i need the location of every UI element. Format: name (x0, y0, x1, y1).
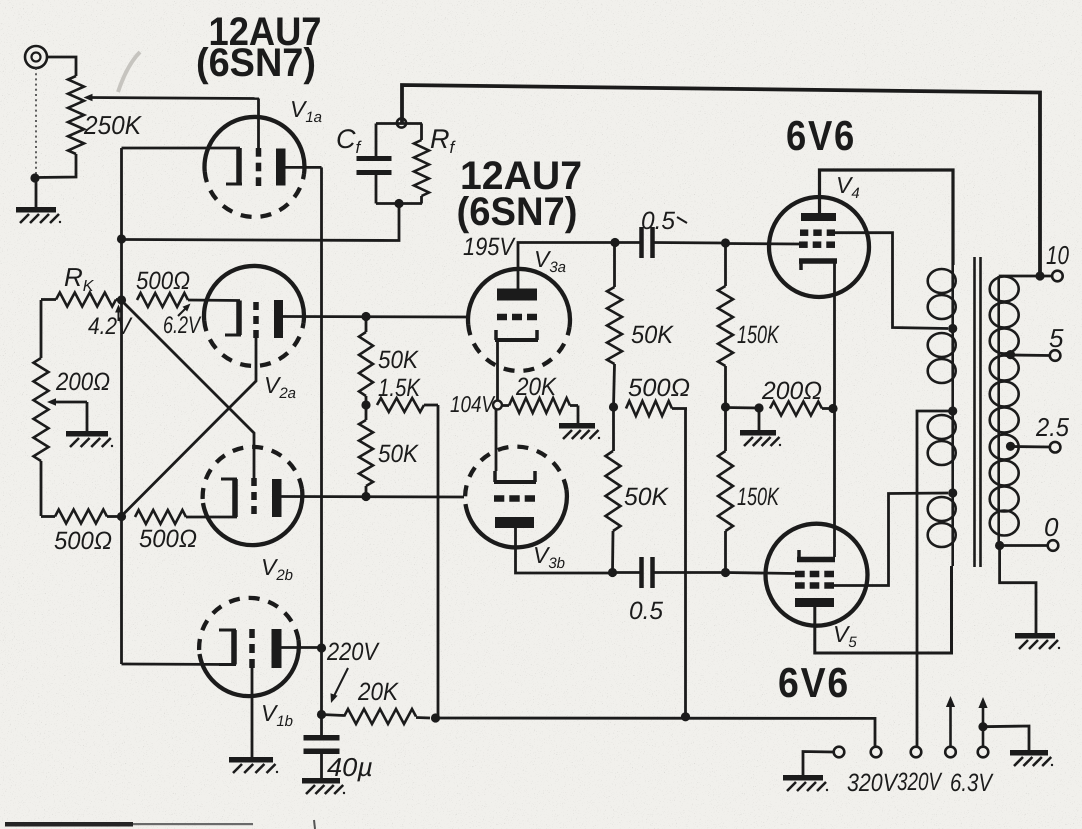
V3a cathode (495, 330, 538, 340)
ground below 40u (302, 778, 345, 794)
potentiometer 250K body (68, 76, 84, 154)
V3b cathode (494, 471, 536, 482)
node secondary tap 5 (1006, 350, 1015, 359)
svg-text:4.2V: 4.2V (88, 313, 133, 340)
wire 250K bottom to ground node (35, 154, 76, 178)
scan artifact tick (314, 820, 315, 829)
wire secondary top to terminal 10 (999, 275, 1052, 278)
svg-text:200Ω: 200Ω (761, 377, 822, 405)
ground below V1b (229, 757, 278, 773)
node primary tap2 B+ (948, 406, 957, 415)
V5 control grid (795, 571, 834, 578)
wire spur to ground (758, 408, 761, 430)
node jack/250K junction (30, 173, 39, 182)
svg-text:1.5K: 1.5K (378, 374, 421, 402)
resistor 150K a (718, 243, 733, 407)
terminal 6.3V a (945, 747, 956, 758)
wire V4 plate to transformer top (820, 170, 954, 265)
V2b cathode (221, 479, 237, 517)
wire bottom rail (436, 718, 876, 747)
V2b plate (272, 479, 282, 517)
wire V5 plate to transformer bottom (815, 566, 952, 653)
node primary tap3 (948, 488, 957, 497)
wire V2a plate out (283, 315, 468, 318)
svg-text:50K: 50K (378, 440, 419, 468)
svg-text:250K: 250K (83, 110, 142, 140)
wire 500ohm mid drop (684, 409, 687, 717)
svg-text:500Ω: 500Ω (139, 525, 197, 553)
node secondary tap 2.5 (1006, 442, 1015, 451)
node cathode rail / feedback junction (117, 234, 126, 243)
node 500ohm drop junction (681, 712, 690, 721)
terminal 5 (1050, 350, 1061, 361)
label 6.2V arrow (178, 304, 191, 317)
node feedback bottom (394, 199, 403, 208)
wire to V5 grid (726, 573, 796, 574)
ground below 150K junction (740, 430, 781, 446)
wire node to ground (35, 178, 38, 207)
svg-text:200Ω: 200Ω (55, 368, 110, 396)
V3a grid (497, 314, 537, 321)
node secondary bottom (995, 541, 1004, 550)
scan artifact smudge top-left (118, 52, 140, 92)
tube V1b envelope (199, 598, 299, 696)
svg-text:50K: 50K (624, 483, 669, 511)
tube V3a envelope (468, 269, 570, 371)
scan artifact bar bottom-left (5, 822, 133, 827)
label 0.5 upper tick (677, 217, 687, 223)
wire V1b grid to ground (251, 668, 254, 757)
tube V2b envelope (203, 447, 303, 545)
resistor 20K mid (502, 398, 578, 413)
wire V3b plate to lower rail (516, 528, 613, 573)
wire left rail (120, 148, 123, 664)
resistor 50K c (607, 243, 622, 408)
V1b plate (272, 629, 282, 668)
terminal 320V b (911, 747, 922, 758)
resistor 20K right (322, 709, 431, 724)
V5 plate (795, 598, 834, 607)
wire terminal1 to ground (803, 752, 834, 776)
wire cross-couple B (122, 338, 257, 516)
svg-text:(6SN7): (6SN7) (457, 190, 578, 234)
wire V5 screen to tap3 (834, 493, 948, 586)
V1a cathode (226, 148, 242, 184)
node V2b plate junction (361, 492, 370, 501)
node 6.3V junction (978, 722, 987, 731)
potentiometer 200ohm body (34, 300, 49, 516)
svg-text:500Ω: 500Ω (628, 374, 690, 402)
input jack J1 (25, 46, 47, 68)
wire Cf/Rf top bar (376, 122, 422, 125)
wire secondary bottom to ground (1000, 546, 1036, 633)
wire jack to 250K top (47, 57, 76, 76)
node 150K mid junction (721, 402, 730, 411)
V4 control grid (799, 241, 835, 248)
node 20K right junction (431, 713, 440, 722)
wire tap 5 (1011, 354, 1051, 357)
250K wiper arrow (84, 94, 260, 102)
node 104V (493, 401, 502, 410)
capacitor 0.5 lower (642, 557, 653, 588)
svg-text:6V6: 6V6 (778, 659, 850, 706)
V2a grid (253, 302, 259, 338)
wire top feedback rail (402, 85, 1040, 276)
wire to V4 grid (726, 242, 800, 245)
svg-text:500Ω: 500Ω (136, 267, 190, 295)
wire Cf top stem (375, 124, 378, 157)
resistor 50K d (606, 407, 621, 573)
wire V1a plate out (286, 166, 322, 169)
terminal 10 (1052, 271, 1063, 282)
wire 150K junction to ground node (726, 406, 760, 409)
wire 500ohm lr to V2b cathode (186, 516, 237, 519)
transformer core (975, 257, 981, 567)
svg-text:2.5: 2.5 (1035, 412, 1069, 442)
label 220V arrow (331, 668, 349, 703)
wire V1b plate out (282, 646, 322, 649)
resistor 500ohm lower-right (135, 510, 186, 524)
wire rail to cap 0.5 lower (613, 571, 642, 574)
wire plate rail (320, 167, 323, 714)
wire 500ohm ll out (107, 515, 122, 518)
resistor 150K b (718, 407, 733, 573)
wire 500ohm to V2a cathode (188, 299, 240, 302)
ground at terminal 1 (783, 775, 828, 791)
V2b grid (251, 478, 257, 514)
ground below 20K mid (559, 423, 600, 439)
V1b grid (249, 629, 255, 668)
wire V3a plate to 195V rail (518, 243, 615, 289)
node V5 grid junction (721, 568, 730, 577)
wire 1.5K drop (437, 405, 440, 718)
svg-text:6.3V: 6.3V (950, 769, 994, 797)
wire feedback to V1a cathode rail (122, 204, 400, 241)
ground below 200ohm wiper (66, 431, 113, 447)
label 4.2V arrow (115, 305, 122, 322)
terminal 6.3V b (978, 747, 989, 758)
svg-text:0.5: 0.5 (629, 597, 663, 625)
svg-text:320V: 320V (897, 768, 943, 796)
wire 20K mid to ground (577, 406, 580, 424)
tube V2a envelope (204, 266, 304, 366)
V5 cathode (797, 550, 835, 560)
wire cap to V4 grid node (653, 241, 726, 244)
terminal ground-left (834, 747, 845, 758)
capacitor 0.5 upper (642, 227, 653, 258)
wire V1a cathode feed (122, 147, 241, 150)
node 20K-left junction (317, 710, 326, 719)
wire Cf/Rf bottom bar (376, 202, 422, 205)
wire V3a cathode to 104V node (496, 340, 499, 401)
node secondary top (1035, 271, 1044, 280)
transformer primary winding (928, 265, 956, 566)
node Rk junction 4.2V (117, 295, 126, 304)
capacitor Cf (357, 156, 392, 175)
terminal 2.5 (1050, 442, 1061, 453)
resistor 50K a (359, 317, 373, 406)
node V4 cathode junction (828, 404, 837, 413)
V4 screen grid (800, 229, 835, 236)
V1a grid (256, 148, 262, 186)
node lower rail left junction (608, 568, 617, 577)
wire jack stem (dotted) (35, 68, 37, 177)
svg-text:6.2V: 6.2V (163, 312, 201, 339)
node V2a plate junction (361, 312, 370, 321)
tube V1a envelope (205, 117, 305, 217)
node 50K c top junction (610, 238, 619, 247)
wire 200ohm to 500ohm (41, 515, 55, 518)
resistor 500ohm upper (137, 293, 188, 307)
svg-text:20K: 20K (357, 678, 399, 706)
tube V3b envelope (465, 447, 567, 548)
wire V4 cathode rail (833, 261, 836, 557)
svg-text:104V: 104V (450, 391, 496, 417)
resistor 500ohm mid (626, 401, 687, 416)
wire rail to cap 0.5 upper (615, 241, 641, 244)
V3a plate (497, 289, 537, 301)
svg-text:320V: 320V (847, 769, 899, 797)
wire 6.3V to ground (983, 726, 1029, 750)
node ground spur junction (754, 403, 763, 412)
V5 screen grid (795, 582, 834, 589)
wire V3b cathode to 104V node (495, 410, 498, 472)
terminal 0 (1048, 540, 1059, 551)
svg-text:6V6: 6V6 (786, 112, 856, 159)
wire heater arrow b (978, 697, 987, 747)
wire wiper to V1a grid (257, 99, 260, 149)
V2a plate (274, 300, 283, 338)
wire tap2 to 320V terminal (917, 411, 953, 747)
svg-text:220V: 220V (326, 638, 380, 666)
svg-text:0.5: 0.5 (641, 207, 675, 235)
node V1b plate junction 220V (317, 643, 326, 652)
svg-text:150K: 150K (737, 483, 780, 511)
svg-text:0: 0 (1044, 512, 1059, 542)
V1a plate (276, 149, 286, 186)
node feedback top (397, 118, 406, 127)
resistor Rk (41, 293, 122, 307)
wire Cf bottom stem (375, 175, 378, 204)
terminal 320V a (871, 747, 882, 758)
wire V4 screen to tap1 (835, 233, 948, 329)
node V4 grid junction (721, 238, 730, 247)
node 1.5K junction (361, 400, 370, 409)
resistor 50K b (359, 405, 373, 497)
ground below input jack (16, 207, 61, 223)
capacitor 40u (304, 715, 340, 779)
node primary tap1 (948, 324, 957, 333)
V3b plate (495, 517, 534, 528)
tube V4 envelope (769, 197, 869, 297)
200ohm wiper arrow (47, 398, 87, 406)
tube V5 envelope (766, 524, 868, 626)
wire tap 0 (1000, 544, 1048, 547)
V4 plate (801, 213, 836, 221)
wire cross-couple A (122, 301, 255, 479)
wire V2b plate out (282, 495, 465, 498)
svg-text:40µ: 40µ (327, 752, 373, 782)
wire tap 2.5 (1011, 445, 1051, 448)
V3b grid (494, 495, 535, 502)
resistor 200ohm right (770, 402, 822, 416)
svg-text:150K: 150K (737, 321, 780, 349)
node lower 500ohm junction (117, 512, 126, 521)
wire V1b cathode feed (122, 663, 235, 666)
V1b cathode (219, 630, 236, 665)
resistor 1.5K (377, 398, 438, 412)
svg-text:5: 5 (1049, 323, 1064, 353)
svg-text:10: 10 (1046, 240, 1069, 270)
svg-text:(6SN7): (6SN7) (196, 41, 316, 85)
node 500ohm mid junction (609, 402, 618, 411)
ground at 6.3V (1010, 750, 1053, 766)
wire wiper to ground (86, 402, 89, 431)
svg-text:50K: 50K (631, 321, 674, 349)
wire heater arrow a (946, 696, 955, 747)
resistor Rf (414, 124, 429, 204)
svg-text:50K: 50K (378, 346, 419, 374)
resistor 500ohm lower-left (55, 510, 107, 524)
wire cap to V5 grid node (653, 571, 726, 574)
svg-text:20K: 20K (515, 373, 557, 401)
transformer secondary winding (990, 276, 1019, 546)
svg-text:500Ω: 500Ω (54, 527, 112, 555)
V4 cathode (799, 261, 837, 270)
ground below 0 tap (1015, 633, 1060, 649)
V2a cathode (225, 301, 241, 336)
wire 200ohm to cathode rail (822, 407, 833, 410)
svg-text:195V: 195V (463, 233, 516, 261)
